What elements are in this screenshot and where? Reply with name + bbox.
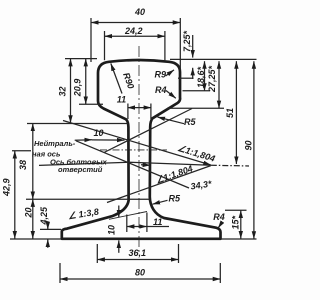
dimension 20,9 with bottom extension	[85, 59, 87, 104]
dimension 42,9 (neutral axis to base)	[14, 151, 16, 239]
dimension 32	[70, 59, 72, 123]
svg-text:Нейтраль-: Нейтраль-	[34, 139, 76, 148]
bolt hole axis line	[39, 162, 211, 165]
bottom reference extension left	[10, 238, 61, 240]
leader R4 foot	[218, 222, 222, 228]
svg-text:R5: R5	[184, 117, 196, 127]
leader R4 head	[166, 91, 176, 99]
web slope indicator line falling	[76, 141, 189, 188]
rail profile outline (head, web, foot)	[62, 60, 221, 239]
neutral axis stub left	[12, 150, 31, 152]
svg-text:20,9: 20,9	[73, 79, 83, 98]
bolt axis arrow at web	[141, 164, 150, 166]
svg-text:4,25: 4,25	[39, 206, 49, 226]
neutral axis across web	[100, 149, 167, 151]
svg-text:R9: R9	[155, 70, 167, 80]
svg-text:10: 10	[107, 225, 117, 235]
dimension 36,1 with extension lines	[96, 244, 98, 263]
svg-text:R5: R5	[169, 193, 181, 203]
dimension 11 (web at head) with extension lines	[127, 104, 129, 120]
svg-text:40: 40	[134, 7, 145, 17]
svg-text:80: 80	[135, 268, 145, 278]
foot slope thin extension line	[109, 212, 147, 220]
svg-text:18,6*: 18,6*	[196, 66, 206, 88]
svg-text:20: 20	[24, 207, 34, 218]
vertical centerline	[138, 46, 140, 252]
top left reference line	[65, 58, 97, 60]
leader R90	[111, 63, 122, 93]
bottom reference extension right	[221, 238, 257, 240]
web slope indicator line lower (1:1,804)	[107, 166, 211, 203]
svg-text:24,2: 24,2	[124, 26, 143, 36]
svg-text:10: 10	[94, 128, 104, 138]
dimension 38	[32, 124, 34, 200]
reference line at web bottom level	[26, 198, 150, 200]
dimension 80 (foot width) with extension lines	[59, 263, 61, 283]
svg-text:90: 90	[244, 140, 254, 150]
dimension 15 (foot edge) with top extension	[240, 210, 242, 238]
dimension 40 (head width) with extension lines	[91, 22, 180, 24]
web slope indicator line upper (1:1,804)	[63, 121, 211, 166]
svg-text:15*: 15*	[230, 215, 240, 229]
leader R5 upper	[158, 117, 185, 124]
svg-text:R4: R4	[155, 85, 167, 95]
svg-text:42,9: 42,9	[1, 178, 11, 197]
dimension 27,25 with bottom extension	[218, 61, 220, 108]
svg-text:51: 51	[225, 108, 235, 118]
svg-text:7,25*: 7,25*	[182, 30, 192, 52]
dimension 18,6 with bottom extension	[204, 61, 206, 91]
dimension 11 (web at foot) with extension lines	[126, 215, 128, 233]
leader R5 lower	[153, 200, 168, 204]
svg-text:38: 38	[18, 160, 28, 170]
svg-text:27,25*: 27,25*	[207, 65, 217, 93]
svg-text:R4: R4	[213, 212, 225, 222]
web slope indicator line rising	[104, 109, 192, 153]
dimension 51 (top to bolt axis)	[235, 61, 237, 164]
top right reference line (crown level)	[170, 58, 257, 60]
leader R9	[166, 70, 175, 76]
svg-text:36,1: 36,1	[129, 248, 147, 258]
svg-text:отверстий: отверстий	[58, 165, 103, 174]
dimension 10 (web thickness) arrows	[75, 139, 92, 142]
dimension 4,25 (foot edge thickness) with extension	[47, 221, 49, 229]
svg-text:11: 11	[117, 95, 126, 105]
svg-text:11: 11	[153, 217, 162, 227]
dimension 10 (foot at slope start) arrows	[118, 206, 120, 218]
dimension 24,2 (head top flat) with extension lines	[105, 35, 165, 37]
dimension 7,25 arrows and stub	[192, 35, 194, 58]
dimension 20	[32, 199, 34, 238]
svg-text:32: 32	[58, 86, 68, 96]
reference line at head bottom level	[27, 123, 128, 125]
dimension 90 (rail height)	[253, 61, 255, 239]
